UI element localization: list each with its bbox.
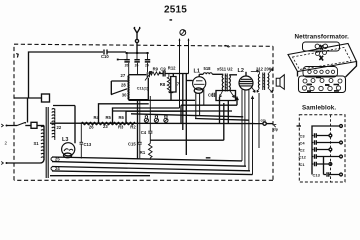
output transformer — [251, 67, 273, 93]
svg-text:R6: R6 — [119, 115, 125, 120]
svg-text:28: 28 — [121, 82, 126, 87]
switch S1 mains — [17, 122, 31, 126]
svg-text:x511 U2: x511 U2 — [217, 67, 233, 72]
capacitor C10 — [101, 50, 126, 60]
svg-text:R1: R1 — [140, 150, 146, 155]
svg-text:R9: R9 — [153, 66, 159, 71]
svg-text:24: 24 — [55, 166, 60, 171]
dial lamp — [179, 30, 190, 108]
coil L4 antenna coil with taps — [121, 73, 129, 100]
svg-text:23: 23 — [103, 124, 108, 129]
svg-text:C13: C13 — [84, 142, 92, 147]
svg-text:2515: 2515 — [164, 5, 187, 16]
tube L3 rectifier — [62, 137, 75, 158]
resistor chain R4 R5 R6 heater bus — [50, 115, 263, 130]
svg-text:cm: cm — [261, 118, 266, 122]
Nettransformator drawing — [288, 42, 357, 93]
Nettransformator label — [295, 34, 350, 41]
svg-text:L3: L3 — [62, 137, 68, 143]
wire: samleblok input stub — [297, 125, 343, 175]
antenna — [134, 28, 140, 54]
capacitor C9 — [159, 66, 189, 76]
svg-text:C1: C1 — [300, 162, 306, 167]
tube L2 — [238, 68, 256, 171]
svg-text:C10: C10 — [101, 54, 109, 59]
wire: verticals from lamp region down — [183, 74, 187, 156]
wire: inner top-left corner run — [29, 52, 104, 98]
svg-text:25: 25 — [55, 156, 60, 161]
capacitor C1 — [300, 162, 332, 167]
svg-text:C3: C3 — [300, 134, 306, 139]
capacitor C2 — [300, 147, 332, 152]
svg-text:S1: S1 — [34, 141, 40, 146]
svg-text:20: 20 — [125, 64, 129, 68]
chassis dashed border — [14, 44, 273, 180]
resistor box (parallel element right) — [169, 74, 180, 101]
svg-text:C12: C12 — [299, 155, 307, 160]
electrolytic capacitor at x156.4 — [154, 115, 158, 123]
wire: antenna junction bar — [126, 52, 149, 59]
resistor R12 label — [168, 66, 176, 71]
trimmer capacitor 33 — [145, 60, 150, 68]
capacitor C12 — [299, 154, 343, 159]
power transformer — [34, 107, 62, 178]
svg-text:26: 26 — [89, 125, 94, 130]
wire: bus y114 — [131, 114, 243, 117]
capacitor C13a filter on vertical wire — [80, 124, 92, 159]
svg-text:R3: R3 — [118, 125, 124, 130]
wire: trimmers to tank circuit — [129, 63, 148, 75]
resistor R8 zigzag (parallel element left) — [160, 74, 171, 93]
svg-text:30: 30 — [122, 93, 127, 98]
wire: chain taps staircase — [99, 104, 187, 124]
resistor R9 — [149, 66, 163, 75]
svg-text:C4: C4 — [300, 141, 306, 146]
capacitor C13 — [313, 157, 343, 178]
switch S2 wave band — [111, 81, 129, 95]
Samleblok label — [302, 104, 336, 111]
svg-text:R12: R12 — [168, 66, 176, 71]
svg-text:R8: R8 — [160, 82, 166, 87]
svg-text:R5: R5 — [106, 115, 112, 120]
svg-text:C2: C2 — [300, 148, 306, 153]
svg-text:R2: R2 — [130, 125, 136, 130]
svg-text:C11(1): C11(1) — [137, 86, 149, 90]
tube L1 — [186, 69, 205, 119]
wire: bus y111 — [113, 110, 233, 112]
svg-text:Samleblok.: Samleblok. — [302, 104, 336, 111]
resistor R1 — [140, 140, 152, 160]
capacitor C3 — [300, 133, 332, 138]
wire: winding 24 bus pair — [50, 166, 253, 176]
transformer IF/detector — [217, 67, 237, 98]
capacitor C15 — [128, 100, 142, 158]
trimmer capacitor 32 — [134, 60, 139, 68]
svg-text:212 206: 212 206 — [256, 67, 272, 72]
svg-text:L1: L1 — [194, 69, 200, 75]
fuse — [31, 122, 44, 128]
svg-text:C8: C8 — [208, 93, 214, 98]
title 2515 — [164, 5, 187, 21]
wire: screen feed to IF can — [150, 103, 224, 140]
coil 510 between L1 and IF transformer — [199, 66, 223, 74]
wire: left vertical and pickup box — [14, 94, 50, 123]
svg-text:29: 29 — [145, 64, 149, 68]
svg-text:C9: C9 — [160, 66, 166, 71]
wire: HT feed to rectifier anode — [53, 106, 75, 144]
pickup terminal output — [259, 93, 279, 148]
capacitor C8 and can below IF transformer — [208, 91, 236, 101]
wire: bus vertical risers right — [206, 97, 254, 175]
svg-text:C13: C13 — [313, 172, 321, 177]
svg-text:518: 518 — [204, 66, 212, 71]
mains input terminals — [1, 124, 44, 165]
electrolytic capacitor at x165.9 — [164, 115, 168, 123]
svg-text:L2: L2 — [238, 68, 244, 74]
wire: top-left mesh line y99 — [129, 100, 196, 158]
svg-text:Nettransformator.: Nettransformator. — [295, 34, 350, 41]
speaker — [276, 75, 284, 90]
wire: mesh around tubes — [181, 97, 249, 123]
wire: heater winding 25 bus pair — [51, 156, 246, 166]
svg-text:C15: C15 — [128, 142, 136, 147]
svg-text:C4: C4 — [141, 130, 147, 135]
wire: feeder into trimmer 1 — [117, 59, 126, 61]
trimmer capacitor 31 — [124, 60, 129, 68]
Samleblok dashed box — [299, 115, 345, 182]
svg-text:27: 27 — [121, 73, 126, 78]
svg-text:22: 22 — [57, 125, 62, 130]
capacitor C4 — [300, 140, 343, 145]
capacitor C14 — [141, 96, 153, 140]
electrolytic capacitor at x146.4 — [144, 114, 148, 122]
capacitor C11 variable tuning — [129, 71, 152, 99]
